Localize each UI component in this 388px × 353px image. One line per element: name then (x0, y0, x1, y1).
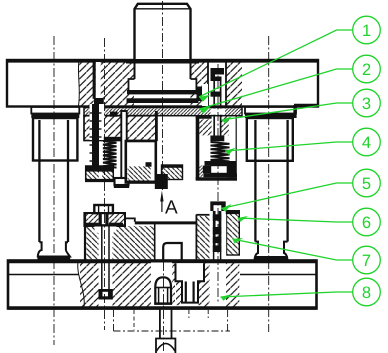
svg-text:1: 1 (362, 22, 371, 40)
right punch retainer block (196, 116, 237, 180)
centerline right guide pillar (268, 36, 270, 332)
svg-text:6: 6 (362, 214, 371, 232)
svg-text:3: 3 (362, 95, 371, 113)
centerline right pin and bolt (217, 64, 219, 302)
main blanking punch (125, 141, 156, 183)
workpiece slug (A target) (155, 174, 168, 189)
centerline knockout rod bottom (163, 262, 165, 353)
spring left (103, 141, 117, 168)
knockout rod below (156, 309, 175, 353)
punch holder plate (84, 104, 157, 141)
die sleeve right (hatched) (227, 211, 240, 255)
die block (85, 213, 210, 261)
upper stripper plate left (85, 166, 114, 181)
centerline stripper bolt assembly left (104, 38, 106, 330)
fastening screw left (90, 98, 123, 169)
spring seat block right (196, 161, 237, 181)
callout numbers (362, 22, 371, 302)
shank flange (127, 63, 199, 103)
pin collar right (lower) (210, 136, 224, 142)
svg-text:A: A (165, 198, 178, 219)
shank (126, 4, 199, 64)
small punch left of channel (197, 84, 209, 106)
piercing punch (narrow) (114, 111, 129, 188)
right shoulder bolt (208, 201, 228, 303)
svg-text:2: 2 (362, 61, 371, 79)
pin channel walls in upper shoe (208, 62, 226, 106)
svg-text:7: 7 (362, 252, 371, 270)
pilot pin head (211, 68, 225, 81)
lower stripper bolt shaft and nut (99, 226, 113, 300)
right guide pillar (255, 120, 288, 261)
pin collar (211, 92, 222, 97)
centerline main vertical (162, 1, 164, 190)
phantom outline below plate (114, 310, 231, 331)
svg-text:5: 5 (362, 175, 371, 193)
upper die shoe plate (7, 60, 318, 107)
spring right (211, 142, 230, 161)
pilot pin upper body (214, 81, 220, 136)
left guide pillar (37, 120, 70, 261)
callout leader lines (199, 16, 380, 306)
callout arrowheads (199, 95, 248, 301)
backing plate (84, 108, 242, 116)
lower stripper bolt head (94, 205, 113, 226)
centerline left guide pillar (53, 36, 55, 345)
section arrow A (160, 191, 178, 219)
left guide bushing (31, 107, 79, 161)
svg-text:8: 8 (362, 284, 371, 302)
lower stripper plate block (84, 213, 134, 226)
stock strip block (162, 165, 183, 180)
right guide bushing (245, 105, 318, 161)
bottom die shoe plate (8, 261, 317, 309)
die insert boss in cavity (95, 227, 182, 260)
svg-text:4: 4 (362, 134, 371, 152)
stepped hole bottom plate (176, 263, 205, 302)
ejector dome pin (151, 263, 172, 306)
